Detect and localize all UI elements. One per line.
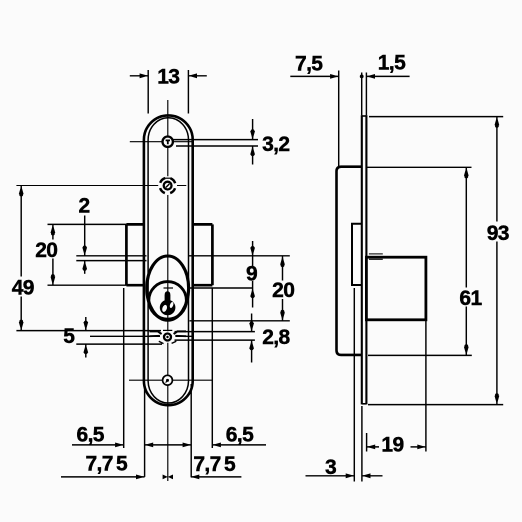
latch screw hole below cylinder xyxy=(162,331,173,342)
dimension 2 - dimension line and arrows xyxy=(84,216,86,256)
dimension 3 - extension lines xyxy=(353,288,355,482)
svg-text:19: 19 xyxy=(381,434,403,457)
lock case (front view) - right part xyxy=(193,223,213,226)
lock case (side view) xyxy=(337,167,362,355)
chamfer marks below latch screw hole xyxy=(159,341,164,343)
dimension 3,2 - dimension line and arrows xyxy=(252,119,254,140)
centerline of bottom screw hole xyxy=(129,379,213,381)
dimension text 20 left xyxy=(34,240,60,259)
svg-text:6,5: 6,5 xyxy=(76,423,104,446)
dimension 20 right - dimension line and arrows xyxy=(282,256,284,321)
reference ticks beside cylinder housing xyxy=(369,253,383,255)
cylinder housing through door (side view rectangle) xyxy=(366,257,426,320)
tick above security pin hole xyxy=(165,177,172,179)
svg-text:13: 13 xyxy=(157,66,179,89)
svg-text:3: 3 xyxy=(325,456,336,479)
svg-text:20: 20 xyxy=(35,239,57,262)
dimension 20 left - extension lines xyxy=(48,223,127,225)
dimension 9 - dimension line and arrows xyxy=(252,241,254,256)
dimension text 61 xyxy=(458,288,485,307)
bottom fixing screw hole xyxy=(163,375,173,385)
dimension 7,5 - extension line xyxy=(338,71,340,167)
latch hole wings (thick converging segments) xyxy=(150,331,162,334)
cylinder body - outer oval (front view) xyxy=(147,256,189,320)
dimension 6,5 left - line, arrows, text xyxy=(72,444,124,446)
tick above latch screw hole xyxy=(163,329,172,331)
dimension 2,8 - dimension line and arrows xyxy=(251,314,253,332)
svg-text:7,75: 7,75 xyxy=(193,453,236,476)
dimension 3,2 - extension lines xyxy=(173,139,259,141)
svg-text:93: 93 xyxy=(487,222,509,245)
svg-text:9: 9 xyxy=(246,263,257,286)
dimension 13 - dimension line and arrows xyxy=(130,75,148,77)
faceplate outline - outer stadium (front view) xyxy=(144,115,193,405)
keyway (black key profile) xyxy=(165,291,171,303)
dimension 93 - extension lines xyxy=(369,116,503,118)
svg-text:5: 5 xyxy=(63,325,75,348)
svg-text:7,75: 7,75 xyxy=(85,452,128,475)
dimension 9 - extension lines xyxy=(164,287,174,289)
svg-text:6,5: 6,5 xyxy=(226,423,254,446)
dimension 5 - extension lines xyxy=(16,330,161,332)
svg-text:1,5: 1,5 xyxy=(378,52,406,75)
centerline of security pin hole / extension for 49 dim xyxy=(16,185,186,187)
svg-text:7,5: 7,5 xyxy=(295,53,323,76)
dimension 7,75 right - line, arrows, text xyxy=(191,475,200,480)
faceplate (side view) - thin vertical strip xyxy=(361,115,363,404)
bottom dimensions - extension lines xyxy=(144,384,146,477)
dimension 2,8 - extension lines xyxy=(175,331,255,333)
dimension 1,5 - extension lines xyxy=(361,73,363,116)
case back protrusion (side view, narrow rectangle) xyxy=(352,224,362,285)
dimension 19 - extension lines xyxy=(425,320,427,452)
dimension 2 - extension lines xyxy=(76,255,146,257)
cylinder plug - inner circle xyxy=(149,282,187,320)
dimension text 20 right xyxy=(271,281,297,300)
dimension 3 - dimension line and arrows xyxy=(306,475,355,477)
dimension 1,5 - dimension line and arrow xyxy=(366,74,375,79)
svg-text:20: 20 xyxy=(272,279,294,302)
dimension 7,5 - dimension line, arrow, dot xyxy=(290,75,338,77)
dimension 6,5 right - line, arrows, text xyxy=(212,443,221,448)
dimension 5 - dimension line and arrows xyxy=(85,317,87,331)
svg-text:49: 49 xyxy=(12,276,34,299)
svg-text:2: 2 xyxy=(79,195,90,218)
dimension 13 - extension lines xyxy=(147,70,149,114)
dimension 19 - dimension line and arrows xyxy=(367,445,376,450)
dimension 20 right - extension line (cylinder bottom) xyxy=(190,320,290,322)
dimension 93 - dimension line and arrows xyxy=(496,117,498,405)
dimension 7,75 left - line, arrows, text xyxy=(61,476,145,478)
dimension 20 left - dimension line and arrows xyxy=(52,224,54,285)
dimension text 49 xyxy=(10,277,37,297)
dimension text 93 xyxy=(485,222,512,242)
dimension 61 - extension lines xyxy=(366,166,471,168)
centerline of front view (vertical axis) xyxy=(167,100,169,481)
security pin hole (knurled) xyxy=(158,176,177,195)
lock case (front view) - left part xyxy=(126,223,143,226)
top fixing screw hole xyxy=(163,137,173,147)
dimension text 19 xyxy=(379,435,406,454)
dimension 61 - dimension line and arrows xyxy=(465,167,467,355)
centerline of top screw hole xyxy=(130,141,193,143)
svg-text:3,2: 3,2 xyxy=(262,133,289,156)
svg-text:2,8: 2,8 xyxy=(262,326,290,349)
faceplate inner edge - inner stadium xyxy=(148,118,188,403)
dimension 49 - dimension line and arrows xyxy=(20,186,22,331)
svg-text:61: 61 xyxy=(459,287,482,310)
